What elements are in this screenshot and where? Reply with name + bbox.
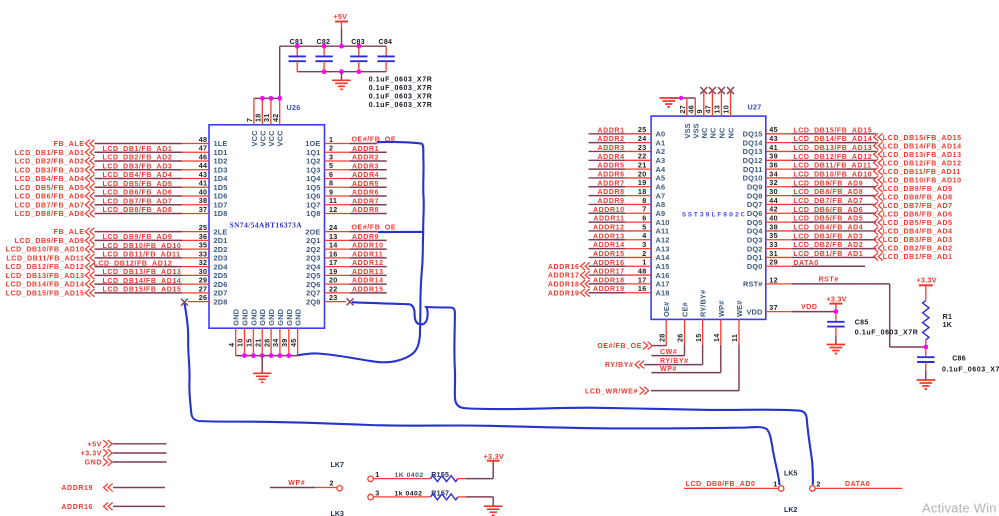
svg-text:ADDR4: ADDR4 [352,172,379,179]
U26 VCC pins 7,18,31,42 [245,98,285,146]
svg-text:2: 2 [642,249,646,258]
svg-text:LCD_DB7/FB_AD7: LCD_DB7/FB_AD7 [883,203,953,210]
svg-text:LCD_DB13/FB_AD13: LCD_DB13/FB_AD13 [6,273,85,280]
svg-text:LCD_DB13/FB_AD13: LCD_DB13/FB_AD13 [793,145,872,152]
svg-text:A5: A5 [656,174,666,183]
svg-text:LCD_DB2/FB_AD2: LCD_DB2/FB_AD2 [793,242,863,249]
svg-text:23: 23 [329,293,338,302]
svg-text:A12: A12 [656,235,670,244]
svg-text:U26: U26 [287,103,301,112]
power +3.3V at VDD [826,295,846,312]
port labels LCD_DB15..LCD_DB1 right column [874,133,962,261]
U26 pin 11 (1Q7) net ADDR7 [306,196,387,209]
svg-text:LCD_DB7/FB_AD7: LCD_DB7/FB_AD7 [793,198,863,205]
svg-text:ADDR8: ADDR8 [597,189,624,196]
port ADDR16 (bottom-left) [61,503,165,512]
svg-text:LCD_DB15/FB_AD15: LCD_DB15/FB_AD15 [883,135,962,142]
svg-text:33: 33 [199,249,208,258]
svg-text:LCD_DB12/FB_AD12: LCD_DB12/FB_AD12 [6,264,85,271]
svg-text:1Q3: 1Q3 [306,165,320,174]
svg-text:DQ4: DQ4 [747,227,763,236]
U27 pin 2 (A14) net ADDR15 [589,249,671,262]
svg-text:SN74/54ABT16373A: SN74/54ABT16373A [230,220,303,229]
svg-text:ADDR11: ADDR11 [352,251,383,258]
svg-text:C85: C85 [855,320,869,327]
U26 pin 8 (1Q5) net ADDR5 [306,179,387,192]
U26 pin 32 (2D4) net LCD_DB12/FB_AD12 [6,258,229,271]
svg-text:2Q3: 2Q3 [306,254,320,263]
svg-text:15: 15 [694,333,703,342]
svg-text:2OE: 2OE [305,227,320,236]
U27 pin 35 (DQ3) net LCD_DB3/FB_AD3 [747,231,876,244]
svg-text:LCD_DB10/FB_AD10: LCD_DB10/FB_AD10 [793,171,872,178]
svg-text:10: 10 [236,338,245,347]
svg-text:LCD_DB11/FB_AD11: LCD_DB11/FB_AD11 [103,252,181,259]
svg-text:SST39LF802C: SST39LF802C [682,212,747,220]
svg-text:24: 24 [638,134,647,143]
svg-text:+3.3V: +3.3V [826,295,846,304]
capacitor C83 [350,39,367,72]
svg-text:2Q8: 2Q8 [306,297,320,306]
svg-text:2: 2 [329,478,333,487]
resistor R157 1k 0402 [368,489,493,507]
U27 pin 45 (DQ15) net LCD_DB15/FB_AD15 [743,125,876,138]
svg-text:40: 40 [769,214,778,223]
svg-text:34: 34 [271,338,280,347]
U27 pin 21 (A4) net ADDR5 [589,161,666,174]
svg-text:1Q8: 1Q8 [306,209,320,218]
svg-text:+5V: +5V [333,12,347,21]
svg-text:A10: A10 [656,218,670,227]
svg-text:10: 10 [722,105,731,114]
svg-text:1D1: 1D1 [214,148,228,157]
svg-text:VCC: VCC [267,130,276,147]
svg-text:1D7: 1D7 [214,200,228,209]
svg-text:1: 1 [773,480,777,489]
svg-text:1D8: 1D8 [214,209,228,218]
svg-text:LCD_DB15/FB_AD15: LCD_DB15/FB_AD15 [6,290,85,297]
U27 pin 20 (A5) net ADDR6 [589,169,666,182]
svg-text:VCC: VCC [276,130,285,147]
svg-text:A14: A14 [656,253,671,262]
resistor R1 1K [923,301,953,348]
svg-text:LCD_DB2/FB_AD2: LCD_DB2/FB_AD2 [15,159,85,166]
svg-text:6: 6 [642,214,646,223]
svg-text:Activate Win: Activate Win [922,501,997,516]
svg-text:29: 29 [199,276,208,285]
svg-text:ADDR19: ADDR19 [548,290,580,297]
U26 GND pins 4,10,15,21,28,34,39,45 [227,308,303,355]
svg-text:7: 7 [642,205,646,214]
svg-text:18: 18 [638,187,647,196]
svg-text:21: 21 [638,161,647,170]
svg-text:37: 37 [769,303,778,312]
svg-text:LCD_DB12/FB_AD12: LCD_DB12/FB_AD12 [94,260,173,267]
svg-text:GND: GND [267,308,276,325]
svg-text:1D4: 1D4 [214,174,229,183]
svg-text:GND: GND [285,308,294,325]
svg-text:LCD_DB0/FB_AD0: LCD_DB0/FB_AD0 [686,481,756,488]
U27 bottom pins 28,26,15,14,11 (OE#,CE#,RY/BY#,WP#,WE#) [657,290,744,391]
svg-text:8: 8 [642,196,646,205]
svg-text:RST#: RST# [743,280,763,289]
U27 pin 5 (A11) net ADDR12 [589,222,670,235]
port RY/BY# wire to U27 RY/BY# [605,358,703,369]
svg-text:39: 39 [280,338,289,347]
svg-text:LCD_DB3/FB_AD3: LCD_DB3/FB_AD3 [103,163,173,170]
svg-text:ADDR8: ADDR8 [352,207,379,214]
U26 pin 40 (1D6) net LCD_DB6/FB_AD6 [15,187,228,200]
link LK5 pins 1-2 (LCD_DB0/FB_AD0 - DATA0) [684,470,902,514]
U26 pin 5 (1Q3) net ADDR3 [306,161,387,174]
junction R1/C86/RST# [923,345,928,350]
net CW# wire to U27 CE# [651,349,684,356]
svg-text:41: 41 [769,143,778,152]
svg-text:LCD_DB1/FB_AD1: LCD_DB1/FB_AD1 [883,254,953,261]
svg-text:LCD_DB6/FB_AD6: LCD_DB6/FB_AD6 [793,207,863,214]
svg-text:5: 5 [642,222,646,231]
svg-text:+3.3V: +3.3V [916,275,936,284]
svg-text:2D6: 2D6 [214,280,228,289]
svg-text:LCD_DB9/FB_AD9: LCD_DB9/FB_AD9 [793,180,863,187]
svg-text:2D2: 2D2 [214,245,228,254]
svg-text:LCD_DB9/FB_AD9: LCD_DB9/FB_AD9 [883,186,953,193]
svg-text:DQ6: DQ6 [747,209,763,218]
svg-text:1D5: 1D5 [214,183,228,192]
svg-text:3: 3 [329,152,333,161]
U27 pin 25 (A0) net ADDR1 [589,125,666,138]
svg-text:17: 17 [329,258,338,267]
svg-text:ADDR17: ADDR17 [548,273,580,280]
svg-text:1Q4: 1Q4 [306,174,321,183]
svg-text:2LE: 2LE [214,227,228,236]
ground below U26 [253,356,272,383]
U27 pin 12 (RST#) net RST# [743,275,924,347]
svg-text:43: 43 [199,170,208,179]
svg-text:A11: A11 [656,227,670,236]
U26 pin 22 (2Q7) net ADDR15 [306,284,387,297]
svg-text:1Q7: 1Q7 [306,200,320,209]
svg-text:ADDR9: ADDR9 [352,234,379,241]
svg-text:C83: C83 [351,39,365,46]
svg-text:LCD_DB3/FB_AD3: LCD_DB3/FB_AD3 [883,237,953,244]
svg-text:2D1: 2D1 [214,236,228,245]
svg-text:GND: GND [241,308,250,325]
svg-text:1D6: 1D6 [214,192,228,201]
ground below C86 [917,380,936,389]
svg-text:ADDR6: ADDR6 [352,190,379,197]
svg-text:LCD_DB8/FB_AD8: LCD_DB8/FB_AD8 [103,207,173,214]
svg-text:0.1uF_0603_X7R: 0.1uF_0603_X7R [855,330,919,337]
svg-text:LCD_DB8/FB_AD8: LCD_DB8/FB_AD8 [793,189,863,196]
svg-text:12: 12 [769,275,778,284]
svg-text:26: 26 [676,333,685,342]
svg-text:32: 32 [199,258,208,267]
svg-text:ADDR3: ADDR3 [597,145,624,152]
junction dots on GND rail [242,353,291,358]
svg-text:LCD_DB8/FB_AD8: LCD_DB8/FB_AD8 [15,211,85,218]
U26 pin 6 (1Q4) net ADDR4 [306,170,387,183]
svg-text:ADDR16: ADDR16 [548,264,580,271]
svg-text:28: 28 [262,338,271,347]
svg-text:LCD_DB6/FB_AD6: LCD_DB6/FB_AD6 [15,194,85,201]
svg-text:1K 0402: 1K 0402 [395,472,424,479]
svg-text:RST#: RST# [819,277,839,284]
svg-text:1OE: 1OE [305,139,320,148]
U27 pin 3 (A13) net ADDR14 [589,240,670,253]
U27 pin 18 (A7) net ADDR8 [589,187,666,200]
U26 pin 43 (1D4) net LCD_DB4/FB_AD4 [15,170,229,183]
svg-text:19: 19 [638,178,647,187]
svg-text:2Q2: 2Q2 [306,245,320,254]
U26 pin 3 (1Q2) net ADDR2 [306,152,387,165]
svg-text:A16: A16 [656,271,670,280]
svg-text:45: 45 [289,338,298,347]
svg-text:ADDR6: ADDR6 [597,171,624,178]
svg-text:39: 39 [769,152,778,161]
wire cap-bank bottom bus [297,71,386,73]
svg-text:24: 24 [329,223,338,232]
wire blue OE#/FB_OE link (pin1-pin24-GND rail) [298,142,424,362]
svg-text:LCD_DB5/FB_AD5: LCD_DB5/FB_AD5 [15,185,85,192]
svg-text:ADDR15: ADDR15 [593,251,625,258]
svg-text:12: 12 [329,205,338,214]
U26 pin 17 (2Q4) net ADDR12 [306,258,387,271]
U26 pin 37 (1D8) net LCD_DB8/FB_AD8 [15,205,228,218]
svg-text:ADDR12: ADDR12 [593,224,625,231]
svg-text:0.1uF_0603_X7R: 0.1uF_0603_X7R [942,366,999,373]
power +3.3V at R1 [916,275,936,300]
svg-text:LCD_DB7/FB_AD7: LCD_DB7/FB_AD7 [103,198,173,205]
U26 pin 9 (1Q6) net ADDR6 [306,187,387,200]
svg-text:20: 20 [638,169,647,178]
svg-text:LCD_DB3/FB_AD3: LCD_DB3/FB_AD3 [15,167,85,174]
svg-text:44: 44 [199,161,208,170]
svg-text:43: 43 [769,134,778,143]
svg-text:DQ12: DQ12 [743,156,763,165]
svg-text:A1: A1 [656,138,666,147]
svg-text:LCD_DB5/FB_AD5: LCD_DB5/FB_AD5 [793,216,863,223]
U26 pin 25 (2LE) net FB_ALE [54,223,228,236]
svg-text:ADDR7: ADDR7 [352,198,379,205]
svg-text:16: 16 [329,249,338,258]
U26 pin 35 (2D2) net LCD_DB10/FB_AD10 [6,241,228,254]
port LCD_WR/WE# to U27 WE# [585,387,739,396]
svg-text:1: 1 [642,258,646,267]
svg-text:33: 33 [769,240,778,249]
svg-text:LK7: LK7 [330,462,344,469]
U26 pin 46 (1D2) net LCD_DB2/FB_AD2 [15,152,228,165]
svg-text:WP#: WP# [717,301,726,317]
svg-text:ADDR16: ADDR16 [593,260,625,267]
svg-text:C82: C82 [317,39,331,46]
svg-text:LCD_DB11/FB_AD11: LCD_DB11/FB_AD11 [793,163,871,170]
svg-text:42: 42 [271,113,280,122]
svg-text:OE#/FB_OE: OE#/FB_OE [352,225,397,232]
svg-text:29: 29 [769,258,778,267]
U27 pin 43 (DQ14) net LCD_DB14/FB_AD14 [743,134,876,147]
U26 pin 23 (2Q8) no-connect X [306,293,353,306]
svg-text:NC: NC [708,127,717,138]
U26 pin 44 (1D3) net LCD_DB3/FB_AD3 [15,161,228,174]
svg-text:CE#: CE# [681,302,690,317]
svg-text:ADDR19: ADDR19 [61,485,93,492]
svg-text:0.1uF_0603_X7R: 0.1uF_0603_X7R [369,76,433,83]
svg-text:41: 41 [199,179,208,188]
svg-text:1Q1: 1Q1 [306,148,320,157]
svg-text:DQ14: DQ14 [743,138,764,147]
svg-text:45: 45 [769,125,778,134]
svg-text:28: 28 [657,333,666,342]
svg-text:LCD_DB14/FB_AD14: LCD_DB14/FB_AD14 [793,136,872,143]
svg-text:16: 16 [638,284,647,293]
U26 pin 47 (1D1) net LCD_DB1/FB_AD1 [15,144,228,157]
svg-text:FB_ALE: FB_ALE [54,229,85,236]
svg-text:LCD_DB8/FB_AD8: LCD_DB8/FB_AD8 [883,195,953,202]
svg-text:1Q5: 1Q5 [306,183,320,192]
wire blue from U26 pin26 X to LK5 pin1 [185,304,780,486]
svg-text:LCD_DB10/FB_AD10: LCD_DB10/FB_AD10 [883,177,962,184]
svg-text:LCD_DB4/FB_AD4: LCD_DB4/FB_AD4 [103,172,173,179]
port +3.3V (bottom-left) [81,449,167,458]
U27 pin 24 (A1) net ADDR2 [589,134,666,147]
svg-text:ADDR12: ADDR12 [352,260,384,267]
svg-text:38: 38 [199,196,208,205]
svg-text:11: 11 [329,196,337,205]
svg-text:38: 38 [769,222,778,231]
svg-text:C86: C86 [952,355,966,362]
svg-text:ADDR19: ADDR19 [593,286,625,293]
svg-text:+3.3V: +3.3V [81,451,103,458]
svg-text:LCD_DB11/FB_AD11: LCD_DB11/FB_AD11 [6,255,84,262]
svg-text:1LE: 1LE [214,139,228,148]
svg-text:0.1uF_0603_X7R: 0.1uF_0603_X7R [369,102,433,109]
svg-text:A18: A18 [656,288,670,297]
U27 pin 8 (A8) net ADDR9 [589,196,666,209]
svg-text:LCD_DB2/FB_AD2: LCD_DB2/FB_AD2 [103,155,173,162]
svg-text:20: 20 [329,276,338,285]
svg-text:DQ10: DQ10 [743,174,763,183]
svg-text:23: 23 [638,143,647,152]
svg-text:A17: A17 [656,280,670,289]
svg-text:LCD_DB14/FB_AD14: LCD_DB14/FB_AD14 [883,143,962,150]
port ADDR19 (bottom-left) [61,484,165,493]
svg-text:DQ9: DQ9 [747,182,763,191]
resistor R155 1K 0402 [368,461,493,482]
junction dots on VCC rail [260,96,282,101]
svg-text:GND: GND [85,460,102,467]
svg-text:A13: A13 [656,244,670,253]
svg-text:OE#/FB_OE: OE#/FB_OE [597,343,642,350]
svg-text:48: 48 [199,135,208,144]
wire blue from U26 pin23 X to LK5 pin2 [352,302,813,485]
svg-text:1D2: 1D2 [214,157,228,166]
svg-text:GND: GND [294,308,303,325]
svg-text:WP#: WP# [288,480,305,487]
svg-text:A6: A6 [656,182,666,191]
svg-text:6: 6 [329,170,333,179]
U27 pin 19 (A6) net ADDR7 [589,178,666,191]
svg-text:LCD_DB6/FB_AD6: LCD_DB6/FB_AD6 [883,212,953,219]
svg-text:R1: R1 [943,314,953,321]
capacitor C85 [827,312,918,345]
svg-text:LCD_DB13/FB_AD13: LCD_DB13/FB_AD13 [883,152,962,159]
svg-text:17: 17 [638,275,647,284]
U26 pin 24 (2OE) net OE#/FB_OE [305,223,396,236]
svg-text:2D3: 2D3 [214,254,228,263]
svg-text:9: 9 [329,187,333,196]
svg-text:36: 36 [769,161,778,170]
svg-text:ADDR13: ADDR13 [352,269,384,276]
svg-text:ADDR3: ADDR3 [352,163,379,170]
svg-text:34: 34 [769,169,778,178]
svg-text:LCD_DB4/FB_AD4: LCD_DB4/FB_AD4 [883,229,953,236]
junction VDD [834,309,839,314]
svg-text:4: 4 [227,343,236,347]
U27 pin 30 (DQ8) net LCD_DB8/FB_AD8 [747,187,876,200]
svg-text:2Q4: 2Q4 [306,262,321,271]
svg-text:42: 42 [769,205,778,214]
U26 pin 2 (1Q1) net ADDR1 [306,144,387,157]
svg-text:0.1uF_0603_X7R: 0.1uF_0603_X7R [369,94,433,101]
no-connect X marks on U27 NC pins [700,87,734,94]
svg-text:ADDR2: ADDR2 [597,136,624,143]
svg-text:ADDR18: ADDR18 [548,282,580,289]
svg-text:22: 22 [329,284,338,293]
svg-text:13: 13 [329,232,338,241]
svg-text:LCD_DB7/FB_AD7: LCD_DB7/FB_AD7 [15,202,85,209]
svg-text:+5V: +5V [88,441,102,448]
wire cap-bank top bus [280,46,386,98]
port +5V (bottom-left) [88,440,167,449]
U27 pin 22 (A3) net ADDR4 [589,152,666,165]
svg-text:GND: GND [232,308,241,325]
U26 pin 19 (2Q5) net ADDR13 [306,267,387,280]
svg-text:13: 13 [713,105,722,114]
svg-text:LCD_DB9/FB_AD9: LCD_DB9/FB_AD9 [103,234,173,241]
svg-text:30: 30 [199,267,208,276]
svg-text:2D5: 2D5 [214,271,228,280]
svg-text:2: 2 [329,144,333,153]
U27 pin 39 (DQ12) net LCD_DB12/FB_AD12 [743,152,876,165]
svg-text:LCD_WR/WE#: LCD_WR/WE# [585,389,638,396]
svg-text:A8: A8 [656,200,666,209]
U27 VSS/NC top pins 27,46,9,47,13,10 [669,92,736,139]
U26 pin 38 (1D7) net LCD_DB7/FB_AD7 [15,196,228,209]
svg-text:11: 11 [730,334,739,342]
svg-text:25: 25 [199,223,208,232]
svg-text:31: 31 [769,249,778,258]
U26 pin 27 (2D7) net LCD_DB15/FB_AD15 [6,284,228,297]
U27 pin 41 (DQ13) net LCD_DB13/FB_AD13 [743,143,876,156]
svg-text:26: 26 [199,293,208,302]
U26 pin 30 (2D5) net LCD_DB13/FB_AD13 [6,267,228,280]
U26 pin 12 (1Q8) net ADDR8 [306,205,387,218]
svg-text:14: 14 [712,333,721,342]
svg-text:35: 35 [769,231,778,240]
U27 pin 7 (A9) net ADDR10 [589,205,666,218]
svg-text:LCD_DB14/FB_AD14: LCD_DB14/FB_AD14 [6,282,85,289]
svg-text:A7: A7 [656,191,666,200]
svg-text:ADDR1: ADDR1 [597,127,624,134]
svg-text:ADDR13: ADDR13 [593,233,625,240]
U27 pin 1 (A15) net ADDR16 [548,258,670,271]
svg-text:35: 35 [199,241,208,250]
ground below cap bank [332,72,351,90]
svg-text:OE#: OE# [662,302,671,317]
U27 pin 32 (DQ9) net LCD_DB9/FB_AD9 [747,178,876,191]
svg-text:A2: A2 [656,147,666,156]
